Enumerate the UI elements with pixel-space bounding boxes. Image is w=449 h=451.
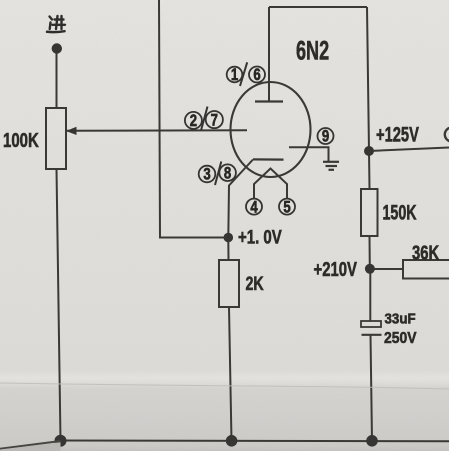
- scan grain overlay: [0, 0, 1, 1]
- capacitor C 33uF 250V top plate: [361, 321, 381, 327]
- wire: top horizontal rail to +125V rail: [269, 6, 367, 8]
- ground symbol: [323, 161, 339, 163]
- wire: grid line from pot wiper to tube grid (pins 2/7): [67, 129, 247, 132]
- wire: 150K bottom to +210V node: [369, 236, 371, 269]
- resistor R 36K body (clipped at right edge): [403, 260, 449, 279]
- pin 9 circle: [318, 128, 334, 144]
- potentiometer R 100K body: [46, 108, 66, 169]
- wire: capacitor to ground rail: [371, 335, 373, 441]
- pin 2 circle: [185, 112, 202, 129]
- pin 7 circle: [206, 111, 223, 128]
- wire: bottom ground rail: [61, 440, 449, 443]
- pin 6 circle: [249, 67, 265, 83]
- slash between pins 3/8: [215, 162, 221, 186]
- slash between pins 2/7: [201, 107, 208, 131]
- paper crease line: [0, 383, 449, 389]
- wire: feedback vertical rail at x=159 from top edge down: [159, 0, 228, 238]
- tube V1 6N2 envelope: [231, 82, 311, 177]
- wire: cathode lead (pins 3/8) to +1.0V node: [228, 160, 253, 238]
- label 进 (input) hand-drawn glyph: [47, 16, 65, 32]
- wire: 2K bottom to ground rail: [229, 307, 232, 441]
- wire: right B+ rail top segment down to +125V node: [367, 7, 369, 151]
- pin 4 circle: [246, 199, 262, 215]
- wire: plate lead up from tube to top rail: [268, 7, 270, 102]
- node: ground rail dot left: [55, 435, 67, 447]
- slash between pins 1/6: [240, 62, 247, 86]
- wire: pin 9 lead to ground symbol: [289, 147, 329, 161]
- resistor R 2K body: [219, 260, 239, 307]
- node: input terminal dot: [52, 43, 62, 53]
- pin 3 circle: [199, 166, 216, 183]
- wire: +125V node to right edge: [369, 148, 449, 152]
- node: +210V junction dot: [365, 264, 375, 274]
- node: ground rail dot middle: [226, 435, 238, 447]
- wire: +1.0V node to 2K resistor: [227, 238, 229, 261]
- wire: +125V node down to 150K top: [368, 151, 371, 189]
- wire: 100K pot bottom to ground rail: [57, 169, 61, 441]
- pin circles with numbers: [185, 62, 334, 214]
- paper edge shading bottom left: [0, 442, 61, 451]
- node: +1.0V cathode junction dot: [224, 233, 234, 243]
- tube cathode bar: [253, 158, 284, 160]
- tube plate bar: [255, 100, 283, 102]
- potentiometer wiper arrowhead: [66, 127, 77, 135]
- node: ground rail dot right: [366, 435, 378, 447]
- capacitor C 33uF 250V bottom plate: [362, 334, 382, 336]
- wire: ground rail left extension to page edge: [0, 441, 61, 449]
- tube heater V to pins 4 and 5: [254, 169, 287, 199]
- partial circle cut at right edge near +125V: [445, 128, 449, 142]
- resistor R 150K body: [361, 189, 378, 236]
- wire: input lead from 进 node to 100K pot top: [56, 50, 58, 108]
- pin 5 circle: [279, 199, 295, 215]
- pin 1 circle: [227, 67, 243, 83]
- wire: +210V node to 36K resistor: [370, 268, 403, 270]
- pin 8 circle: [219, 164, 236, 181]
- wire: +210V node down to capacitor: [369, 269, 371, 321]
- node: +125V junction dot: [364, 146, 374, 156]
